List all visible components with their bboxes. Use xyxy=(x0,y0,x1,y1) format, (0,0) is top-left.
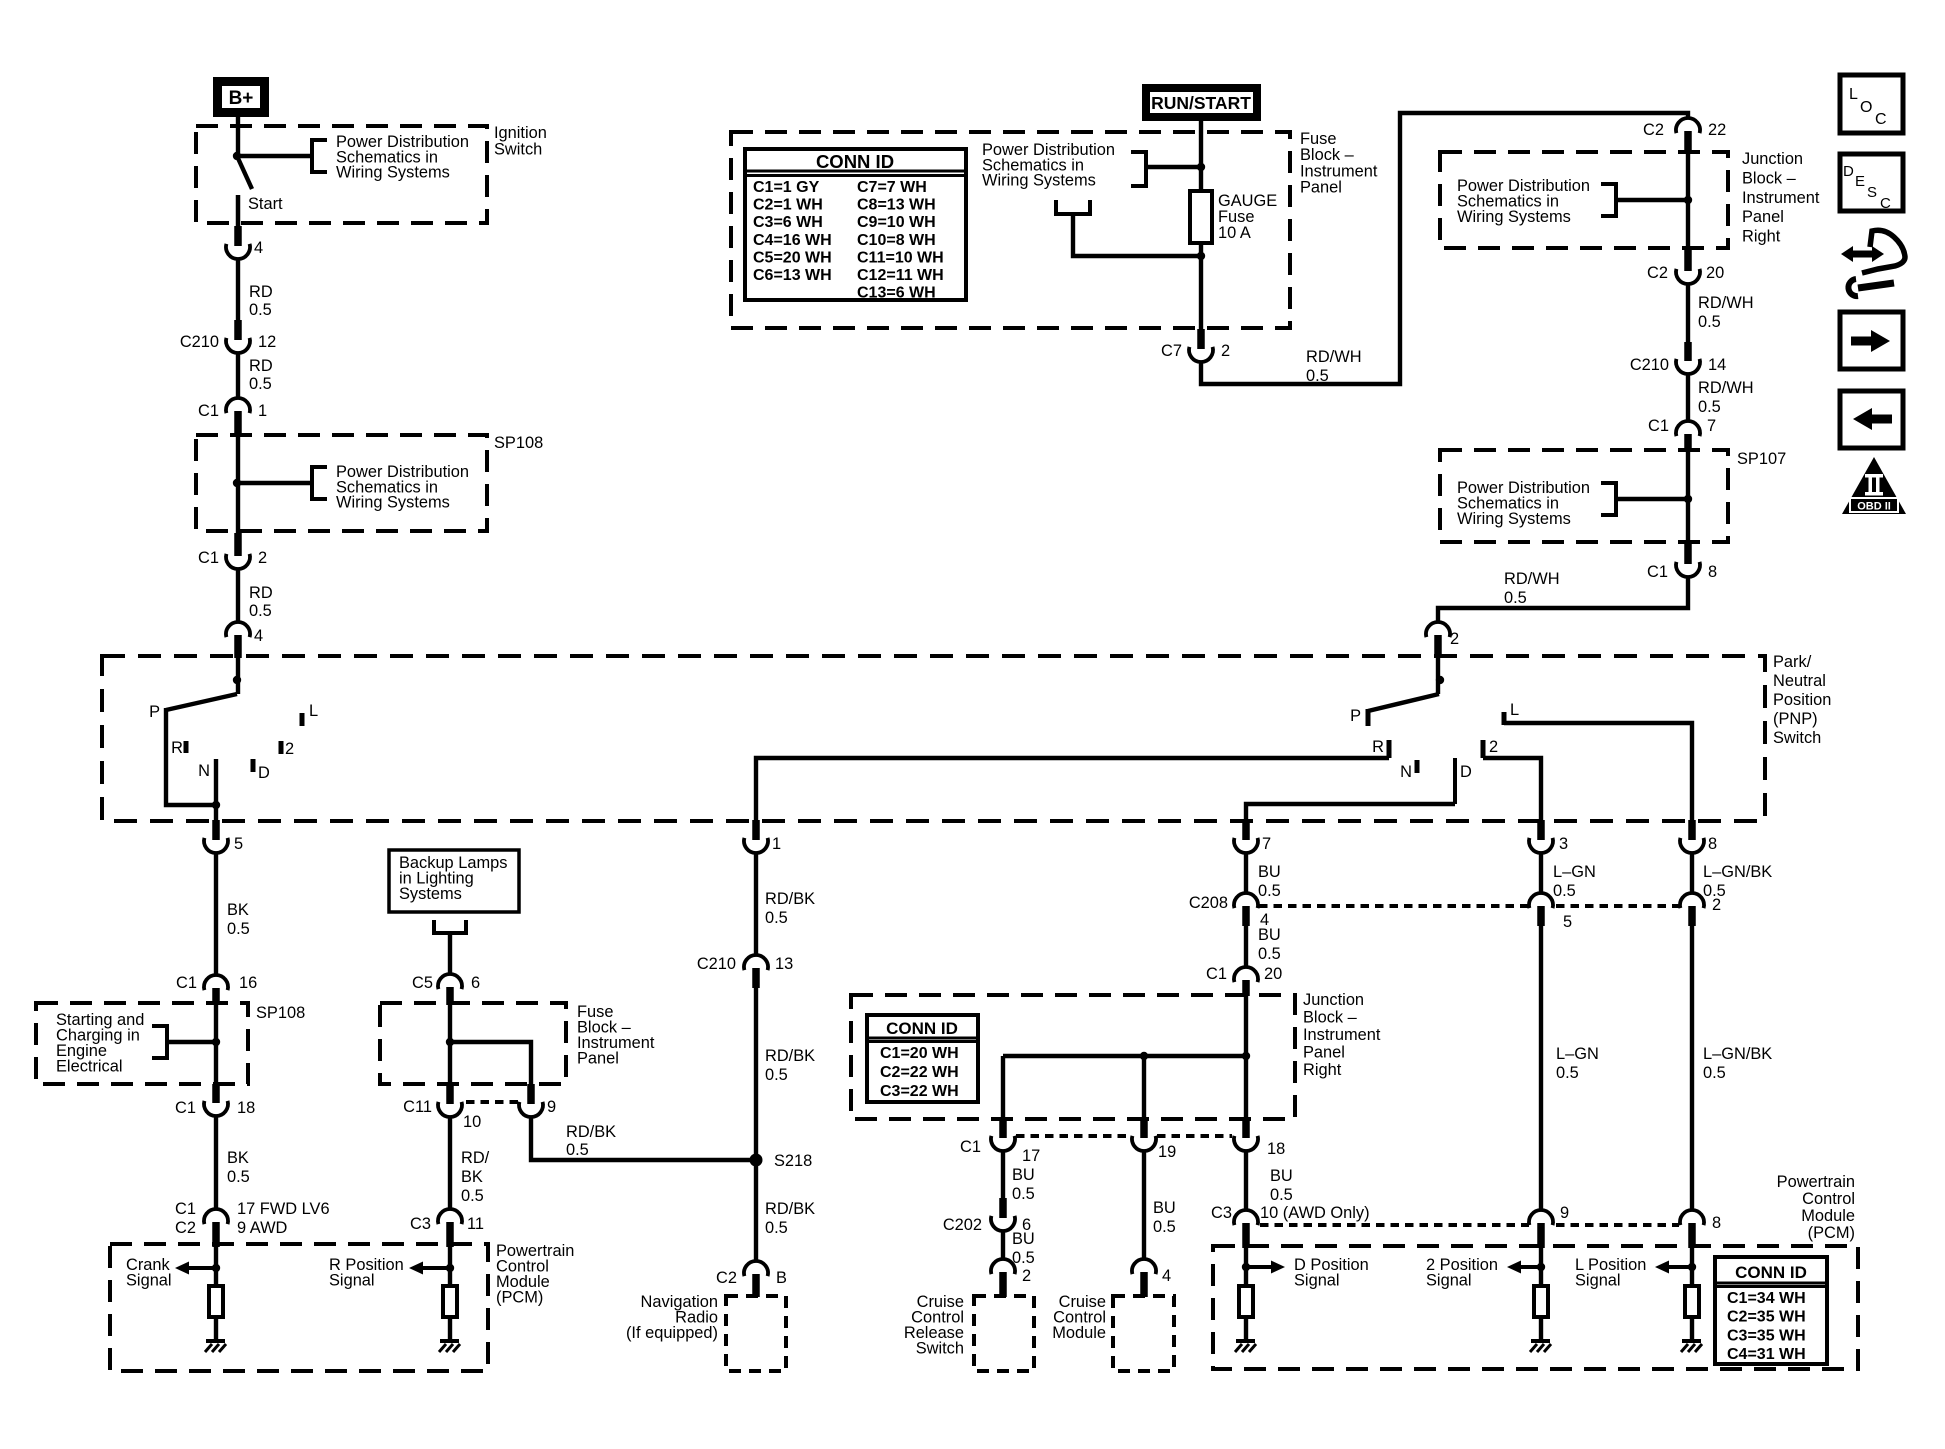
svg-text:C11: C11 xyxy=(403,1098,432,1116)
svg-text:Switch: Switch xyxy=(916,1340,964,1358)
svg-text:BU: BU xyxy=(1012,1230,1035,1248)
svg-text:2: 2 xyxy=(1712,896,1721,914)
svg-text:Signal: Signal xyxy=(1294,1272,1340,1290)
svg-text:Signal: Signal xyxy=(329,1272,375,1290)
svg-text:3: 3 xyxy=(1559,835,1568,853)
svg-text:Systems: Systems xyxy=(399,885,462,903)
svg-text:Block –: Block – xyxy=(1303,1009,1358,1027)
svg-text:L: L xyxy=(309,702,318,720)
svg-text:2: 2 xyxy=(1221,342,1230,360)
svg-text:0.5: 0.5 xyxy=(1258,882,1281,900)
svg-text:1: 1 xyxy=(258,402,267,420)
svg-text:16: 16 xyxy=(239,974,257,992)
svg-text:C1: C1 xyxy=(175,1200,196,1218)
svg-text:9: 9 xyxy=(547,1098,556,1116)
svg-text:7: 7 xyxy=(1262,835,1271,853)
svg-text:L–GN: L–GN xyxy=(1556,1045,1599,1063)
svg-text:9: 9 xyxy=(1560,1204,1569,1222)
svg-text:C4=31 WH: C4=31 WH xyxy=(1727,1346,1806,1363)
svg-text:RD: RD xyxy=(249,283,273,301)
svg-text:D: D xyxy=(1460,763,1472,781)
svg-text:C2=1 WH: C2=1 WH xyxy=(753,197,823,214)
svg-text:0.5: 0.5 xyxy=(1258,945,1281,963)
svg-text:BU: BU xyxy=(1012,1166,1035,1184)
svg-text:C210: C210 xyxy=(180,333,219,351)
svg-text:D: D xyxy=(1843,163,1854,180)
svg-text:5: 5 xyxy=(1563,913,1572,931)
svg-text:Instrument: Instrument xyxy=(1303,1026,1381,1044)
svg-text:18: 18 xyxy=(1267,1140,1285,1158)
svg-text:2: 2 xyxy=(1450,630,1459,648)
svg-text:Right: Right xyxy=(1742,228,1781,246)
svg-text:C9=10 WH: C9=10 WH xyxy=(857,214,936,231)
svg-text:9 AWD: 9 AWD xyxy=(237,1219,288,1237)
svg-text:Switch: Switch xyxy=(1773,729,1821,747)
svg-text:O: O xyxy=(1860,99,1872,116)
svg-text:C1: C1 xyxy=(960,1138,981,1156)
svg-text:BU: BU xyxy=(1153,1199,1176,1217)
svg-text:RD/WH: RD/WH xyxy=(1306,348,1362,366)
svg-text:0.5: 0.5 xyxy=(1703,1064,1726,1082)
svg-text:Junction: Junction xyxy=(1742,150,1803,168)
svg-text:20: 20 xyxy=(1264,965,1282,983)
svg-text:4: 4 xyxy=(254,627,263,645)
svg-text:RD/WH: RD/WH xyxy=(1504,570,1560,588)
svg-text:11: 11 xyxy=(467,1215,484,1233)
svg-text:7: 7 xyxy=(1707,417,1716,435)
svg-text:Instrument: Instrument xyxy=(1742,189,1820,207)
svg-text:22: 22 xyxy=(1708,121,1726,139)
svg-text:Panel: Panel xyxy=(577,1050,619,1068)
svg-text:B+: B+ xyxy=(229,88,254,109)
svg-text:Ignition: Ignition xyxy=(494,124,547,142)
svg-text:RD: RD xyxy=(249,584,273,602)
svg-text:C1=34 WH: C1=34 WH xyxy=(1727,1290,1806,1307)
svg-text:Switch: Switch xyxy=(494,141,542,159)
svg-text:5: 5 xyxy=(234,835,243,853)
svg-text:C4=16 WH: C4=16 WH xyxy=(753,232,832,249)
svg-text:C202: C202 xyxy=(943,1216,982,1234)
svg-text:OBD II: OBD II xyxy=(1857,501,1891,513)
svg-text:Start: Start xyxy=(248,195,283,213)
svg-text:Wiring Systems: Wiring Systems xyxy=(1457,208,1571,226)
svg-text:C1: C1 xyxy=(1648,417,1669,435)
svg-text:S: S xyxy=(1867,184,1877,201)
svg-text:C5=20 WH: C5=20 WH xyxy=(753,249,832,266)
svg-text:4: 4 xyxy=(1162,1267,1171,1285)
svg-text:C3: C3 xyxy=(410,1215,431,1233)
svg-text:C2: C2 xyxy=(1647,264,1668,282)
svg-text:(PCM): (PCM) xyxy=(1808,1224,1855,1242)
svg-text:Powertrain: Powertrain xyxy=(1777,1173,1855,1191)
svg-text:Panel: Panel xyxy=(1303,1044,1345,1062)
svg-text:C7: C7 xyxy=(1161,342,1182,360)
svg-text:Control: Control xyxy=(1802,1190,1855,1208)
svg-text:RD/: RD/ xyxy=(461,1149,490,1167)
svg-text:Electrical: Electrical xyxy=(56,1058,123,1076)
svg-text:C12=11 WH: C12=11 WH xyxy=(857,267,944,284)
svg-text:C2: C2 xyxy=(716,1269,737,1287)
svg-text:Wiring Systems: Wiring Systems xyxy=(336,164,450,182)
svg-text:13: 13 xyxy=(775,955,793,973)
svg-text:2: 2 xyxy=(1022,1267,1031,1285)
svg-text:L–GN: L–GN xyxy=(1553,863,1596,881)
svg-text:C2=22 WH: C2=22 WH xyxy=(880,1064,959,1081)
svg-text:1: 1 xyxy=(772,835,781,853)
svg-text:8: 8 xyxy=(1708,563,1717,581)
svg-text:Right: Right xyxy=(1303,1061,1342,1079)
svg-text:RD/BK: RD/BK xyxy=(765,1047,815,1065)
svg-text:0.5: 0.5 xyxy=(1270,1186,1293,1204)
svg-text:RD/WH: RD/WH xyxy=(1698,379,1754,397)
svg-text:0.5: 0.5 xyxy=(765,1219,788,1237)
svg-text:S218: S218 xyxy=(774,1152,812,1170)
svg-text:C208: C208 xyxy=(1189,894,1228,912)
svg-text:C2=35 WH: C2=35 WH xyxy=(1727,1309,1806,1326)
svg-text:BU: BU xyxy=(1258,926,1281,944)
svg-text:Panel: Panel xyxy=(1300,179,1342,197)
svg-text:0.5: 0.5 xyxy=(765,909,788,927)
svg-text:BK: BK xyxy=(461,1168,483,1186)
svg-text:C8=13 WH: C8=13 WH xyxy=(857,197,936,214)
svg-text:Signal: Signal xyxy=(1426,1272,1472,1290)
svg-text:Panel: Panel xyxy=(1742,208,1784,226)
svg-text:P: P xyxy=(1350,707,1361,725)
svg-text:0.5: 0.5 xyxy=(1012,1249,1035,1267)
svg-text:10 (AWD Only): 10 (AWD Only) xyxy=(1260,1204,1370,1222)
svg-text:0.5: 0.5 xyxy=(1698,398,1721,416)
svg-text:0.5: 0.5 xyxy=(249,375,272,393)
svg-text:0.5: 0.5 xyxy=(566,1141,589,1159)
svg-text:0.5: 0.5 xyxy=(1012,1185,1035,1203)
svg-text:C1: C1 xyxy=(1647,563,1668,581)
svg-text:14: 14 xyxy=(1708,356,1726,374)
svg-text:10: 10 xyxy=(463,1113,481,1131)
svg-text:Neutral: Neutral xyxy=(1773,672,1826,690)
svg-text:RD/WH: RD/WH xyxy=(1698,294,1754,312)
svg-text:R: R xyxy=(1372,738,1384,756)
svg-text:0.5: 0.5 xyxy=(227,1168,250,1186)
svg-text:8: 8 xyxy=(1708,835,1717,853)
svg-text:Signal: Signal xyxy=(1575,1272,1621,1290)
svg-text:SP108: SP108 xyxy=(494,434,543,452)
svg-text:4: 4 xyxy=(254,239,263,257)
svg-text:Wiring Systems: Wiring Systems xyxy=(336,494,450,512)
svg-text:RD/BK: RD/BK xyxy=(566,1123,616,1141)
svg-text:B: B xyxy=(776,1269,787,1287)
svg-text:N: N xyxy=(1400,763,1412,781)
svg-text:Park/: Park/ xyxy=(1773,653,1812,671)
svg-text:(PCM): (PCM) xyxy=(496,1289,543,1307)
svg-text:2: 2 xyxy=(285,740,294,758)
svg-text:CONN ID: CONN ID xyxy=(1735,1263,1807,1282)
svg-text:C3=35 WH: C3=35 WH xyxy=(1727,1327,1806,1344)
svg-text:0.5: 0.5 xyxy=(1504,589,1527,607)
svg-text:CONN ID: CONN ID xyxy=(886,1019,958,1038)
svg-text:C7=7 WH: C7=7 WH xyxy=(857,179,927,196)
svg-text:10 A: 10 A xyxy=(1218,224,1251,242)
svg-text:2: 2 xyxy=(1489,738,1498,756)
svg-text:BK: BK xyxy=(227,901,249,919)
svg-text:C5: C5 xyxy=(412,974,433,992)
svg-text:N: N xyxy=(198,762,210,780)
svg-text:2: 2 xyxy=(258,549,267,567)
svg-text:D: D xyxy=(258,764,270,782)
svg-text:Module: Module xyxy=(1801,1207,1855,1225)
svg-text:C13=6 WH: C13=6 WH xyxy=(857,285,936,302)
svg-text:BU: BU xyxy=(1270,1167,1293,1185)
svg-text:0.5: 0.5 xyxy=(765,1066,788,1084)
svg-text:19: 19 xyxy=(1158,1143,1176,1161)
svg-text:20: 20 xyxy=(1706,264,1724,282)
svg-text:(If equipped): (If equipped) xyxy=(626,1324,718,1342)
svg-text:0.5: 0.5 xyxy=(1556,1064,1579,1082)
svg-text:C: C xyxy=(1880,195,1891,212)
svg-text:0.5: 0.5 xyxy=(249,301,272,319)
svg-text:SP107: SP107 xyxy=(1737,450,1786,468)
svg-text:E: E xyxy=(1855,173,1865,190)
svg-text:0.5: 0.5 xyxy=(1698,313,1721,331)
svg-text:C1: C1 xyxy=(198,402,219,420)
svg-text:BK: BK xyxy=(227,1149,249,1167)
svg-text:C1: C1 xyxy=(176,974,197,992)
svg-text:C1=1 GY: C1=1 GY xyxy=(753,179,820,196)
svg-text:RUN/START: RUN/START xyxy=(1151,93,1251,113)
svg-text:0.5: 0.5 xyxy=(1153,1218,1176,1236)
svg-text:RD: RD xyxy=(249,357,273,375)
svg-text:CONN ID: CONN ID xyxy=(816,151,894,172)
svg-text:C210: C210 xyxy=(1630,356,1669,374)
svg-text:0.5: 0.5 xyxy=(249,602,272,620)
svg-text:0.5: 0.5 xyxy=(1553,882,1576,900)
svg-text:Wiring Systems: Wiring Systems xyxy=(982,172,1096,190)
svg-text:P: P xyxy=(149,703,160,721)
svg-text:SP108: SP108 xyxy=(256,1004,305,1022)
svg-text:Block –: Block – xyxy=(1742,169,1797,187)
svg-text:C3: C3 xyxy=(1211,1204,1232,1222)
svg-text:0.5: 0.5 xyxy=(227,920,250,938)
svg-text:12: 12 xyxy=(258,333,276,351)
svg-text:C6=13 WH: C6=13 WH xyxy=(753,267,832,284)
svg-text:17 FWD LV6: 17 FWD LV6 xyxy=(237,1200,330,1218)
svg-text:Signal: Signal xyxy=(126,1272,172,1290)
svg-text:L: L xyxy=(1510,701,1519,719)
svg-text:C2: C2 xyxy=(1643,121,1664,139)
svg-text:L–GN/BK: L–GN/BK xyxy=(1703,1045,1772,1063)
svg-text:R: R xyxy=(171,739,183,757)
svg-text:RD/BK: RD/BK xyxy=(765,890,815,908)
svg-text:C1=20 WH: C1=20 WH xyxy=(880,1045,959,1062)
svg-text:C3=22 WH: C3=22 WH xyxy=(880,1083,959,1100)
svg-text:C1: C1 xyxy=(175,1099,196,1117)
svg-text:C1: C1 xyxy=(1206,965,1227,983)
svg-text:L–GN/BK: L–GN/BK xyxy=(1703,863,1772,881)
svg-text:Wiring Systems: Wiring Systems xyxy=(1457,510,1571,528)
svg-text:6: 6 xyxy=(471,974,480,992)
svg-text:8: 8 xyxy=(1712,1214,1721,1232)
svg-text:BU: BU xyxy=(1258,863,1281,881)
svg-text:C2: C2 xyxy=(175,1219,196,1237)
svg-text:C3=6 WH: C3=6 WH xyxy=(753,214,823,231)
svg-text:C10=8 WH: C10=8 WH xyxy=(857,232,936,249)
svg-text:Junction: Junction xyxy=(1303,991,1364,1009)
svg-text:C11=10 WH: C11=10 WH xyxy=(857,249,944,266)
svg-text:18: 18 xyxy=(237,1099,255,1117)
svg-text:C210: C210 xyxy=(697,955,736,973)
svg-text:C1: C1 xyxy=(198,549,219,567)
svg-text:Position: Position xyxy=(1773,691,1831,709)
svg-text:0.5: 0.5 xyxy=(461,1187,484,1205)
svg-text:L: L xyxy=(1849,86,1858,103)
svg-text:C: C xyxy=(1875,111,1887,128)
svg-text:Module: Module xyxy=(1052,1324,1106,1342)
svg-text:(PNP): (PNP) xyxy=(1773,710,1818,728)
svg-text:17: 17 xyxy=(1022,1147,1040,1165)
svg-text:RD/BK: RD/BK xyxy=(765,1200,815,1218)
